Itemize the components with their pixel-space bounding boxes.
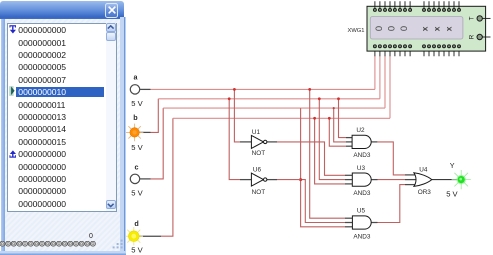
svg-text:R: R [469,34,476,39]
probe Y (green LED, lit) [452,170,471,189]
XWG1 display window [370,17,463,39]
svg-text:0: 0 [373,26,384,31]
wire U5 output to U4 input 3 [371,185,416,223]
svg-text:XWG1: XWG1 [347,28,364,34]
XWG1 bottom pins left group [373,45,411,56]
wire d to U3 input 3 [315,118,353,184]
svg-text:U3: U3 [357,165,366,172]
probe b (orange, lit) [126,124,144,142]
wire U6 output to node [267,179,301,181]
list rows text [18,24,103,210]
XWG1 display digits x x x [419,26,453,31]
selected row highlight [16,87,104,97]
junction c/U2 [333,107,335,109]
wire U1 output to U3 input 1 [267,142,353,175]
svg-text:0: 0 [398,26,409,31]
svg-text:5 V: 5 V [131,143,143,152]
svg-text:5 V: 5 V [131,188,143,197]
svg-text:b: b [133,113,138,122]
probe d (yellow, lit) [125,227,143,245]
svg-text:U6: U6 [253,166,262,173]
probe a (white circle) [130,85,139,94]
svg-text:a: a [134,73,139,82]
wire net b (probe b to XWG1 pin 2, bus line) [139,56,380,132]
right frame strip [120,17,127,251]
svg-text:NOT: NOT [252,150,266,157]
svg-text:AND3: AND3 [353,234,370,241]
left frame strip [1,19,5,251]
wire a to U1 input [234,89,251,141]
svg-text:U2: U2 [356,127,365,134]
scrollbar track [106,23,116,210]
svg-text:5 V: 5 V [446,190,458,199]
svg-text:5 V: 5 V [131,99,143,108]
list box [7,23,118,212]
wire U3 output to U4 input 2 [371,179,416,181]
XWG1 bottom pins right group [423,45,461,56]
wire b to U3 input 2 [319,99,353,180]
svg-text:U4: U4 [419,167,428,174]
wire c down to node with U6 output and U5 input 3 [301,108,353,227]
junction b/U6 [228,97,231,100]
probe c (white circle) [130,174,139,183]
panel body background [1,19,124,251]
wire U2 output to U4 input 1 [371,142,416,175]
wire b to U2 input 1 [339,99,353,138]
svg-text:d: d [134,219,138,228]
final position marker (up arrow with bar) [9,150,17,160]
svg-text:U5: U5 [357,207,366,214]
junction d/U3 [313,117,316,120]
svg-text:x: x [419,26,429,31]
svg-text:AND3: AND3 [353,152,370,159]
XWG1 display digits 0 0 0 [373,26,409,31]
wire a to U5 input 1 [310,89,353,218]
svg-text:x: x [431,26,441,31]
XWG1 pin T [469,16,491,21]
svg-text:0: 0 [386,26,397,31]
svg-text:U1: U1 [252,129,261,136]
junction b/U3 [318,97,321,100]
initial position marker (down arrow with bar) [9,25,17,35]
"0" label above terminals [86,233,96,240]
svg-text:c: c [135,162,139,171]
close X button [105,3,118,17]
wire jog node to U5 input 2 [301,180,353,223]
svg-text:5 V: 5 V [131,245,143,254]
XWG1 pin R [469,34,491,39]
wire net c (probe c to XWG1 pin 3, bus line) [140,56,385,179]
junction a/U5 [308,88,311,91]
junction d/U2 [328,117,331,120]
wire c to U2 input 2 [334,108,352,142]
junction node c/U6out [299,178,302,181]
OR gate U4 [414,173,432,187]
svg-text:Y: Y [450,161,455,170]
op-amp? no - NOT gate U1 [251,135,267,148]
bottom frame strip [0,251,126,255]
wire net a (probe a to XWG1 pin 1, bus line) [140,56,375,89]
AND gate U3 [352,173,371,186]
word generator instrument panel window [0,1,126,254]
scrollbar thumb [106,32,116,40]
junction a/U1 [233,88,236,91]
svg-text:T: T [469,16,476,20]
scrollbar up button [106,23,116,31]
svg-text:OR3: OR3 [418,189,432,196]
output terminal circles [0,241,100,252]
svg-text:NOT: NOT [252,189,266,196]
svg-text:x: x [444,26,454,31]
title bar [0,1,124,19]
XWG1 top pins left group [373,1,411,11]
current position marker (green triangle) [9,86,16,97]
XWG1 top pins right group [423,1,461,11]
scrollbar down button [106,200,116,209]
wire U4 output to probe Y [432,179,457,181]
instrument XWG1 body [367,6,486,51]
wire net d (probe d to XWG1 pin 4, bus line) [139,56,390,236]
svg-text:AND3: AND3 [353,190,370,197]
resize grip [112,239,124,249]
wire d to U2 input 3 [329,118,352,146]
AND gate U5 [352,216,371,229]
wire b to U6 input [229,99,251,180]
NOT gate U6 [251,173,267,186]
AND gate U2 [352,135,371,148]
junction b/U2 [337,97,340,100]
